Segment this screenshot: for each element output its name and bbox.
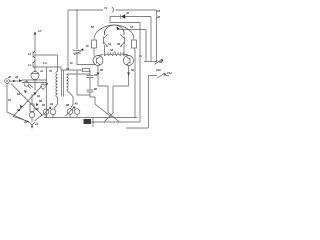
svg-text:54: 54 (108, 42, 112, 46)
svg-text:102: 102 (167, 71, 172, 75)
svg-text:28: 28 (14, 75, 19, 79)
svg-text:70: 70 (49, 69, 53, 73)
svg-text:26: 26 (7, 75, 12, 79)
svg-text:84: 84 (50, 102, 54, 106)
svg-text:62: 62 (131, 68, 135, 72)
svg-text:66: 66 (17, 108, 21, 112)
svg-text:58: 58 (110, 48, 114, 52)
svg-text:18: 18 (157, 9, 161, 13)
svg-text:96: 96 (159, 60, 163, 64)
svg-text:46: 46 (44, 82, 49, 86)
svg-text:14: 14 (28, 63, 32, 67)
svg-text:64: 64 (8, 98, 12, 102)
svg-text:16: 16 (86, 44, 90, 48)
svg-text:74: 74 (104, 6, 108, 10)
svg-text:12: 12 (28, 52, 32, 56)
svg-text:50: 50 (91, 25, 95, 29)
svg-text:60: 60 (100, 68, 104, 72)
svg-text:7x: 7x (139, 54, 143, 58)
svg-text:24: 24 (34, 122, 39, 126)
svg-text:44: 44 (39, 69, 44, 73)
svg-text:100: 100 (156, 68, 161, 72)
svg-text:22: 22 (23, 120, 28, 124)
svg-text:56: 56 (117, 42, 121, 46)
svg-text:78: 78 (94, 73, 98, 77)
svg-text:76: 76 (126, 11, 130, 15)
svg-text:64: 64 (37, 94, 41, 98)
svg-text:10: 10 (38, 29, 42, 33)
svg-text:68: 68 (36, 107, 40, 111)
svg-text:62: 62 (17, 92, 21, 96)
svg-text:10: 10 (70, 61, 74, 65)
svg-text:52: 52 (130, 25, 134, 29)
svg-text:20: 20 (156, 15, 161, 19)
svg-text:72: 72 (66, 67, 70, 71)
svg-text:90: 90 (75, 102, 79, 106)
svg-text:82: 82 (42, 103, 46, 107)
svg-text:Ca: Ca (43, 61, 47, 65)
svg-text:88: 88 (66, 103, 70, 107)
svg-text:80: 80 (94, 87, 98, 91)
